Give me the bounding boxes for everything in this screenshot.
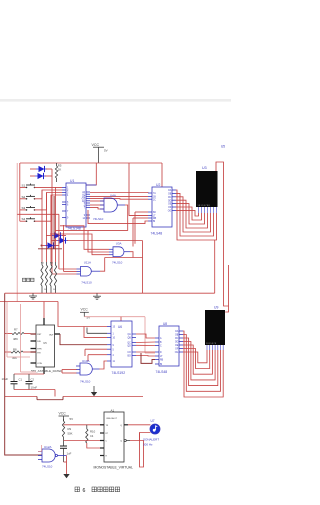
- svg-text:U9: U9: [214, 306, 218, 310]
- svg-text:1 8 1 5 3 7 8: 1 8 1 5 3 7 8: [206, 343, 216, 345]
- wire U1 to U4A a: [90, 200, 104, 202]
- svg-text:74LS10: 74LS10: [81, 281, 92, 285]
- svg-text:74LS10: 74LS10: [112, 261, 123, 265]
- wire U9 right riser: [225, 265, 228, 312]
- svg-text:OA: OA: [175, 330, 179, 333]
- wire U8 out 5 to U9: [183, 345, 212, 374]
- svg-text:DIS: DIS: [37, 341, 41, 343]
- caption: [75, 487, 79, 492]
- svg-text:BO: BO: [127, 356, 131, 358]
- monostable A1: [104, 412, 124, 462]
- wire U1 to U2 b: [90, 195, 148, 197]
- wire to U3A in2: [55, 231, 109, 252]
- wire U6 vcc drop: [120, 317, 122, 321]
- logic gate U10A 74LS10: [80, 363, 92, 375]
- svg-text:U6: U6: [118, 325, 122, 329]
- svg-text:4: 4: [67, 195, 69, 197]
- svg-text:C: C: [160, 346, 162, 348]
- logic gate U4A 74LS10: [104, 198, 117, 212]
- svg-text:QB: QB: [127, 338, 131, 340]
- svg-text:74LS48: 74LS48: [156, 370, 168, 374]
- wire R10 to A1: [87, 443, 104, 448]
- wire U6-U8 b: [136, 341, 155, 344]
- svg-text:R10: R10: [90, 430, 96, 434]
- svg-text:10nF: 10nF: [31, 386, 38, 390]
- wire U3A out: [130, 252, 133, 258]
- svg-text:VCC: VCC: [81, 308, 89, 312]
- svg-text:1: 1: [113, 333, 115, 335]
- svg-text:R9: R9: [68, 427, 72, 431]
- svg-text:U1: U1: [70, 179, 74, 183]
- svg-text:OC: OC: [168, 197, 172, 199]
- svg-text:SONALERT: SONALERT: [143, 438, 159, 442]
- ground mid left: [32, 293, 34, 296]
- svg-text:U2: U2: [156, 183, 160, 187]
- resistor R4: [54, 265, 56, 286]
- wire U2 out 4 to U3: [176, 200, 208, 228]
- svg-text:U10A: U10A: [82, 359, 90, 363]
- svg-text:9: 9: [113, 345, 115, 347]
- svg-text:RB: RB: [160, 360, 164, 362]
- svg-text:S1: S1: [22, 183, 26, 187]
- wire to U3A in3: [50, 234, 109, 255]
- wire bundle U2 lower d: [88, 210, 148, 224]
- svg-text:5: 5: [113, 349, 115, 351]
- wire left loop vertical: [19, 163, 21, 221]
- svg-text:2K: 2K: [58, 168, 62, 172]
- wire U6-U8 e: [136, 355, 155, 358]
- svg-text:TRI: TRI: [37, 352, 41, 354]
- svg-text:Q: Q: [120, 425, 122, 427]
- svg-text:R7: R7: [14, 328, 18, 332]
- svg-text:U5: U5: [43, 342, 47, 345]
- svg-text:B: B: [160, 342, 162, 344]
- wire U4A output down: [125, 205, 128, 231]
- wire R9 top rail: [64, 424, 105, 426]
- wire x63.6 vertical: [63, 225, 65, 272]
- wire U6 in e: [85, 348, 107, 350]
- wire bundle U2 lower a: [135, 211, 148, 213]
- svg-text:S4: S4: [22, 217, 26, 221]
- svg-text:10: 10: [113, 338, 116, 340]
- diode D3: [55, 232, 61, 238]
- ground bottom arrow: [63, 474, 69, 478]
- wire riser x142: [142, 241, 144, 294]
- wire rail to U6 pin1: [58, 302, 107, 327]
- svg-text:OB: OB: [175, 335, 179, 337]
- svg-text:U3A: U3A: [116, 242, 122, 246]
- svg-text:D: D: [160, 352, 162, 354]
- svg-text:CO: CO: [127, 352, 131, 354]
- svg-text:74LS192: 74LS192: [112, 371, 126, 375]
- diode D2: [38, 173, 44, 179]
- resistor R10: [86, 429, 88, 443]
- logic gate U3A 74LS10: [113, 247, 124, 257]
- wire U8 out 6 to U9: [183, 349, 210, 369]
- svg-text:BI: BI: [153, 221, 156, 223]
- wire U11A in3: [52, 273, 77, 275]
- wire U2 out 7 to U3: [176, 210, 199, 216]
- wire Qbar to U7: [130, 433, 150, 441]
- wire mid rail: [28, 292, 215, 294]
- svg-text:4: 4: [113, 355, 115, 357]
- wire rail y301: [0, 301, 58, 303]
- junction node A: [41, 245, 43, 247]
- wire S1 to U1: [56, 186, 63, 188]
- wire dark vertical x54: [53, 196, 55, 249]
- svg-text:14: 14: [82, 218, 85, 220]
- svg-text:BI: BI: [160, 364, 163, 366]
- svg-text:7: 7: [67, 211, 69, 213]
- ground mid arrow: [93, 386, 95, 392]
- svg-text:74LS48: 74LS48: [151, 231, 163, 235]
- svg-text:QD: QD: [127, 345, 131, 347]
- svg-text:U5: U5: [221, 145, 225, 149]
- wire gate out gnd: [66, 456, 68, 475]
- svg-text:5V: 5V: [70, 417, 74, 421]
- svg-text:QA: QA: [127, 333, 131, 336]
- wire U1 to U4A b: [90, 204, 104, 206]
- counter U6 74LS192: [111, 321, 132, 367]
- svg-text:U3: U3: [202, 166, 207, 170]
- svg-text:6D: 6D: [153, 212, 156, 214]
- svg-text:THR: THR: [37, 348, 42, 350]
- wire cap gnd: [14, 389, 55, 391]
- svg-text:2C: 2C: [153, 199, 156, 201]
- wire left inner vertical: [16, 163, 18, 302]
- svg-text:74LS148: 74LS148: [67, 226, 81, 230]
- wire U8 out 7 to U9: [183, 350, 207, 363]
- svg-text:11: 11: [113, 361, 116, 363]
- wire black jog to U6: [87, 332, 107, 334]
- svg-text:7: 7: [84, 208, 86, 210]
- resistor R9: [62, 421, 64, 437]
- wire rail riser right: [214, 240, 216, 293]
- svg-text:OG: OG: [175, 352, 179, 354]
- wire U8 out 1 to U9: [183, 331, 223, 397]
- wire vcc pink rail: [84, 316, 145, 318]
- wire U3 right hook: [216, 162, 229, 306]
- svg-text:6: 6: [83, 488, 86, 494]
- svg-text:QC: QC: [127, 343, 131, 345]
- wire pink loop a: [6, 302, 8, 357]
- diode D5: [48, 242, 54, 248]
- svg-text:OG: OG: [168, 211, 172, 213]
- svg-text:C4: C4: [90, 434, 94, 438]
- ground mid center: [96, 293, 98, 296]
- svg-text:RST: RST: [37, 334, 42, 336]
- svg-text:S3: S3: [22, 206, 26, 210]
- logic gate U12A 74LS10: [42, 449, 55, 462]
- logic gate U11A 74LS10: [81, 267, 92, 277]
- diode D4: [60, 237, 66, 243]
- wire y257 link: [105, 257, 143, 259]
- op-amp U8 74LS48: [159, 326, 179, 366]
- capacitor C3 1uF: [63, 437, 65, 446]
- svg-text:OD: OD: [168, 200, 172, 202]
- wire U2 out 3 to U3: [176, 197, 211, 232]
- svg-text:VCC: VCC: [92, 143, 100, 147]
- svg-text:TR: TR: [106, 425, 109, 427]
- svg-text:U7: U7: [151, 419, 155, 423]
- wire U11A in1: [59, 268, 77, 270]
- resistor R2: [45, 265, 47, 286]
- svg-text:R1: R1: [41, 263, 45, 265]
- wire y240 long: [67, 240, 143, 242]
- wire diode cathode bus: [51, 169, 53, 274]
- wire branch to U2 vcc: [161, 163, 163, 187]
- wire U6-U8 c: [136, 344, 155, 346]
- svg-text:74LS10: 74LS10: [80, 380, 91, 384]
- svg-text:7A: 7A: [153, 192, 156, 195]
- wire bundle U2 lower c: [133, 217, 148, 219]
- wire C pin rail: [64, 440, 105, 442]
- svg-text:5V: 5V: [104, 149, 108, 153]
- wire U10A in feeds: [62, 369, 77, 371]
- wire U2 out 1 to U3: [176, 190, 217, 240]
- svg-text:50K: 50K: [68, 432, 73, 436]
- wire S3 to U1: [47, 193, 63, 210]
- op-amp U1 74LS148: [66, 183, 86, 227]
- svg-text:74LS10: 74LS10: [93, 217, 104, 221]
- wire pink drop x145: [144, 317, 146, 353]
- wire U6-U8 d: [136, 351, 155, 353]
- svg-text:OE: OE: [175, 345, 179, 347]
- svg-text:VCC: VCC: [59, 412, 67, 416]
- svg-text:OA: OA: [168, 189, 172, 192]
- svg-text:U12A: U12A: [44, 445, 52, 449]
- wire VCC branch to U1 pin16: [86, 163, 96, 185]
- wire left long bus: [5, 293, 42, 455]
- resistor R5: [55, 166, 57, 178]
- svg-text:48K: 48K: [13, 337, 18, 341]
- wire U11A in2: [64, 271, 77, 273]
- wire pink drop: [41, 445, 43, 452]
- svg-text:OF: OF: [175, 349, 179, 351]
- svg-text:6: 6: [67, 205, 69, 207]
- svg-text:OUT: OUT: [49, 334, 54, 336]
- diode D1: [39, 166, 45, 172]
- wire U2 out 5 to U3: [176, 204, 205, 224]
- svg-text:9: 9: [84, 215, 86, 217]
- wire vertical x133: [132, 218, 134, 247]
- svg-text:A: A: [160, 337, 162, 340]
- wire bottom loop: [140, 433, 144, 468]
- wire maroon stub: [38, 248, 62, 250]
- svg-text:C1: C1: [19, 378, 23, 382]
- wire vertical x135: [134, 212, 136, 244]
- switch S4: [20, 220, 26, 222]
- wire S2 to U1: [42, 190, 62, 199]
- wire x58.9 vertical: [58, 214, 60, 269]
- svg-text:ONE-SHOT: ONE-SHOT: [106, 418, 118, 420]
- decorative light band: [0, 99, 231, 102]
- wire pink loop b: [20, 304, 22, 372]
- svg-text:OD: OD: [175, 342, 179, 344]
- wire U6-U8 a: [136, 334, 155, 338]
- wire U6 in x84: [84, 327, 107, 338]
- svg-text:1uF: 1uF: [67, 452, 72, 456]
- resistor R1: [41, 265, 43, 286]
- svg-text:U8: U8: [163, 322, 167, 326]
- svg-text:1 8 1 5 3 7 8 8: 1 8 1 5 3 7 8 8: [198, 205, 210, 207]
- switch S2: [20, 198, 26, 200]
- switch S1: [20, 186, 26, 188]
- svg-text:OC: OC: [175, 338, 179, 340]
- wire U10A out up: [100, 361, 108, 369]
- wire U8 out 4 to U9: [183, 342, 215, 380]
- svg-text:45K: 45K: [12, 356, 17, 360]
- wire U2 out 6 to U3: [176, 207, 202, 220]
- wire cap rail: [14, 373, 44, 375]
- wire U11A out up: [100, 258, 105, 272]
- wire Q to U7: [128, 424, 150, 426]
- svg-text:OE: OE: [168, 204, 172, 206]
- svg-text:15: 15: [113, 327, 116, 329]
- wire U2 out 2 to U3: [176, 193, 214, 236]
- wire bundle U2 lower b: [129, 215, 148, 217]
- svg-text:U4A: U4A: [110, 194, 116, 198]
- svg-text:C2: C2: [31, 378, 35, 382]
- wire rail to bus: [5, 292, 28, 294]
- wire branch x129 down: [129, 163, 148, 216]
- svg-text:9: 9: [67, 218, 69, 220]
- svg-text:5V: 5V: [87, 316, 91, 320]
- op-amp U2 74LS48: [152, 187, 172, 227]
- wire U8 out 2 to U9: [183, 335, 221, 392]
- svg-text:LT: LT: [160, 356, 163, 358]
- svg-text:OF: OF: [168, 207, 172, 209]
- wire horizontal y214: [17, 213, 59, 215]
- svg-text:CON: CON: [37, 363, 42, 365]
- wire top power rail: [20, 162, 162, 164]
- svg-text:C: C: [106, 441, 108, 443]
- wire U1 to U4A c: [90, 207, 104, 209]
- wire U6 in f: [88, 354, 107, 356]
- svg-text:RB: RB: [153, 218, 157, 220]
- svg-text:R3: R3: [50, 263, 54, 265]
- svg-text:1B: 1B: [153, 197, 156, 199]
- wire U8 out 3 to U9: [183, 338, 218, 386]
- svg-text:MONOSTABLE_VIRTUAL: MONOSTABLE_VIRTUAL: [94, 466, 134, 470]
- wire bottom rail: [5, 396, 37, 398]
- switch S3: [20, 209, 26, 211]
- svg-text:Q: Q: [120, 441, 122, 443]
- svg-text:OB: OB: [168, 194, 172, 196]
- wire bottom rail dip: [36, 397, 38, 400]
- wire U6-U8 tangle: [141, 353, 155, 363]
- wire U1 to U2 a: [90, 192, 148, 195]
- resistor R3: [50, 265, 52, 286]
- svg-text:S2: S2: [22, 195, 26, 199]
- svg-text:200 Hz: 200 Hz: [143, 443, 153, 447]
- svg-text:A1: A1: [111, 409, 115, 413]
- svg-text:R: R: [106, 456, 108, 458]
- label keys chinese: [23, 278, 26, 281]
- timer U5 555: [36, 325, 55, 367]
- wire 555 out to U6: [60, 334, 107, 345]
- wire to U3A in1: [60, 226, 109, 250]
- wire S4 to U1: [51, 195, 62, 221]
- wire 555 vcc drop: [43, 302, 45, 326]
- svg-text:RT: RT: [106, 433, 109, 435]
- svg-text:U11A: U11A: [84, 260, 91, 264]
- svg-text:74LS10: 74LS10: [42, 465, 53, 469]
- wire U1 to U2 c: [90, 198, 148, 201]
